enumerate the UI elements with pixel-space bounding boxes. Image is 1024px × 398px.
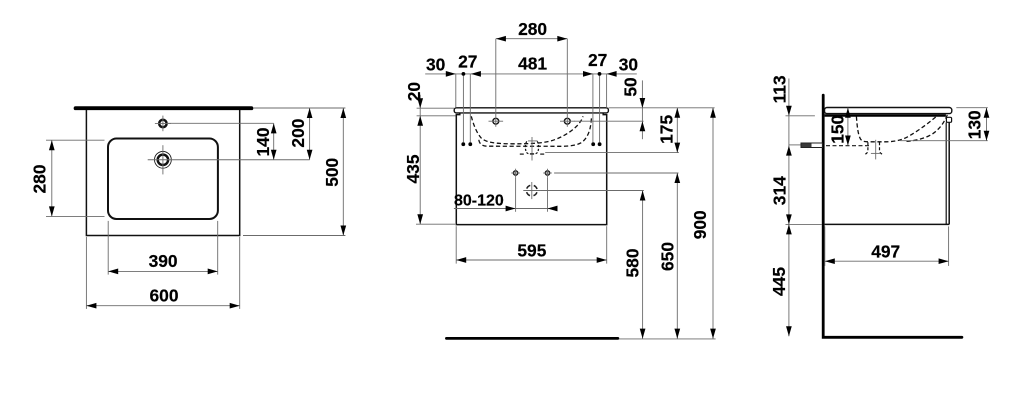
basin body top edge (side view, thick) [825,114,946,117]
drain left hidden edge (side) [864,142,868,154]
svg-text:20: 20 [404,82,424,101]
washbasin rear edge (thick bar) [76,106,252,110]
200 dimension line [309,108,311,160]
svg-text:27: 27 [588,50,607,70]
svg-text:50: 50 [620,77,640,96]
150 dimension line [847,108,849,146]
20 top extension line [417,107,454,109]
arrow 30 left [446,71,456,77]
497 left extension line [824,226,826,266]
580 top extension line [540,190,644,192]
rim front lip (side view) [946,117,951,122]
floor extension line right [619,338,716,340]
600 dimension line [86,305,239,307]
mounting hole marker [545,171,549,175]
drain bottom tick [530,153,534,155]
600 left extension line [85,237,87,309]
overflow hole vertical centerline tick [162,116,164,132]
fixing centerline dashed [826,145,870,147]
ext line left 27 tap hole [462,74,464,142]
svg-text:595: 595 [517,241,546,261]
mounting hole left vertical line [515,177,517,211]
drain tick (side) [871,152,881,154]
washbasin rim slab (side view) [825,108,952,114]
175 bottom extension line [545,152,679,154]
svg-text:500: 500 [322,158,342,187]
svg-text:113: 113 [770,75,790,103]
drain top tick [528,140,538,142]
595 right extension line [606,226,608,263]
ext line 280 left / tap hole [495,39,497,115]
tap hole marker [493,118,499,124]
595 left extension line [455,226,457,263]
hidden bowl front wall (side view) [906,115,947,142]
drain right hidden edge (side) [880,142,884,154]
drain foot left [520,153,524,155]
svg-text:435: 435 [403,154,423,183]
cabinet door inner edge [945,123,947,225]
svg-text:150: 150 [828,115,848,144]
svg-text:580: 580 [623,248,643,277]
650 top extension line [554,172,678,174]
svg-text:314: 314 [770,176,790,205]
tap hole marker [564,118,570,124]
mounting hole marker [513,171,517,175]
497 dimension line [825,260,949,262]
bolt extension line [789,144,801,146]
extension line overflow hole to 140 dim [167,122,274,124]
ext line basin right edge [606,74,608,108]
overflow hole [159,120,166,127]
arrow 481 left [471,71,481,77]
svg-text:280: 280 [30,164,50,193]
497 right extension line [948,226,950,266]
ext line right 27 tap hole [599,74,601,142]
faucet crosshair horizontal + extension to 200 dim [148,159,310,161]
20/435 dimension line [419,95,421,225]
svg-text:80-120: 80-120 [454,192,504,209]
595 dimension line [456,259,607,261]
svg-text:900: 900 [690,210,710,239]
svg-text:481: 481 [518,54,547,74]
hidden bowl bottom line (front view) [479,117,592,147]
faucet hole inner ring [158,155,168,165]
140 dimension line [273,123,275,159]
chain dimension line 30-27-481-27-30 [425,73,637,75]
drain foot right [540,153,544,155]
390 left extension line [107,221,109,275]
mounting hole right vertical line [547,177,549,211]
overflow hole horizontal centerline tick [155,122,171,124]
svg-text:30: 30 [426,54,445,74]
wall anchor bolt [801,143,822,148]
50 dimension line [641,80,643,139]
280 dimension line (front) [496,38,567,40]
wall and floor (side view) [823,95,962,337]
drain centerline vertical [531,137,533,161]
svg-text:445: 445 [769,267,789,296]
faucet crosshair vertical [162,145,164,174]
113 bottom extension line [786,115,815,117]
washbasin rim slab (front view) [454,108,608,113]
hidden bowl outline (front view) [471,116,583,144]
rim top extension line right [609,107,715,109]
500 bottom extension line [243,235,345,237]
drain centerline (side) [875,140,877,160]
600 right extension line [239,237,241,309]
arrow 30 right [607,71,617,77]
floor line (front view) [446,337,618,340]
280 bottom extension line [46,215,105,217]
80-120 dimension line [454,208,557,210]
svg-text:497: 497 [871,241,900,261]
svg-text:600: 600 [149,285,178,305]
cabinet front outer edge [948,122,950,224]
drain trap right hidden edge [534,141,538,154]
arrow 481 right [583,71,593,77]
113/314/445 dimension line [788,79,790,337]
right tap position dot B [598,142,602,146]
390 right extension line [217,221,219,275]
hidden bowl outline (side view) [856,114,938,142]
ext line basin left edge [455,74,457,108]
svg-text:175: 175 [657,115,677,144]
280 dimension line [51,140,53,216]
650 dimension line [676,173,678,339]
ext line left 30+27 [469,74,471,142]
280 top extension line [46,139,105,141]
drain hole marker [526,185,537,196]
svg-text:27: 27 [458,51,477,71]
basin bowl (top view) [108,139,218,220]
svg-text:280: 280 [518,19,547,39]
130 top extension line [956,107,988,109]
faucet hole outer circle [155,151,172,168]
washbasin body and vanity cabinet (front view) [456,113,606,225]
580 dimension line [642,191,644,339]
500 dimension line [342,108,344,236]
drain trap left hidden edge [525,141,529,154]
svg-text:390: 390 [149,251,178,271]
svg-text:130: 130 [964,110,984,139]
cabinet bottom (side view) [825,223,950,225]
left tap position dot A [461,142,465,146]
svg-text:30: 30 [619,55,638,75]
left tap position dot B [468,142,472,146]
130 dimension line [986,108,988,141]
svg-text:140: 140 [253,127,273,156]
chain dot right 27 [598,72,602,76]
ext line 280 right / tap hole [566,39,568,115]
svg-text:650: 650 [658,242,678,271]
tap hole height extension line [574,120,644,122]
314/445 boundary extension line [786,223,823,225]
ext line right 481 end [592,74,594,142]
130 bottom extension line [900,140,988,142]
svg-text:200: 200 [288,119,308,148]
right tap position dot A [591,142,595,146]
20 bottom extension line [417,115,456,117]
435 bottom extension line [416,223,455,225]
900 dimension line [712,108,714,339]
390 dimension line [108,270,218,272]
rear edge extension line right [253,107,345,109]
chain dot left 27 [462,72,466,76]
washbasin outer rim (top view) [86,110,239,236]
175 dimension line [676,108,678,153]
